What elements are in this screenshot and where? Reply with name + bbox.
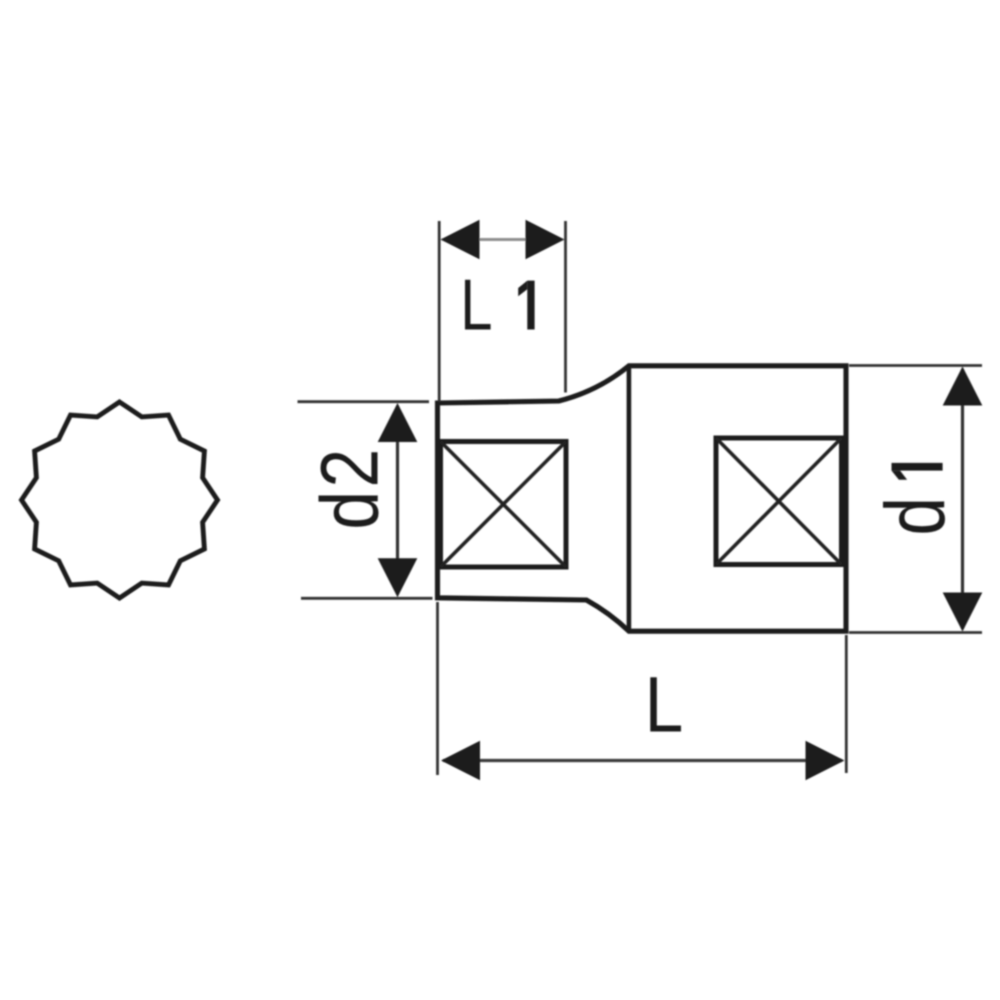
svg-text:d: d bbox=[869, 497, 963, 536]
svg-text:L: L bbox=[460, 264, 492, 345]
svg-text:L: L bbox=[645, 660, 684, 748]
svg-text:d2: d2 bbox=[304, 445, 396, 529]
